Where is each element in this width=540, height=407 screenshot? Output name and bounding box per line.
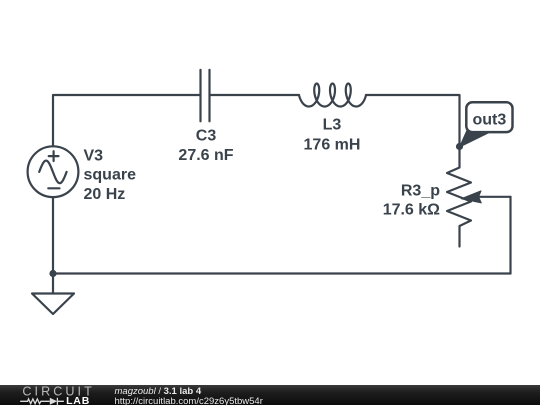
svg-text:square: square: [84, 167, 137, 184]
wire right vertical to wiper: [509, 197, 511, 274]
svg-text:17.6 kΩ: 17.6 kΩ: [383, 201, 440, 218]
svg-text:L3: L3: [323, 116, 342, 133]
wire C3 to L3: [210, 94, 300, 96]
voltage source V3: [28, 146, 79, 197]
footer bar: [0, 385, 540, 406]
out3 flag pointer: [460, 129, 488, 147]
wire V3 bottom to junction: [52, 197, 54, 273]
svg-text:176 mH: 176 mH: [304, 137, 361, 154]
svg-text:27.6 nF: 27.6 nF: [178, 147, 233, 164]
svg-text:R3_p: R3_p: [401, 183, 440, 200]
svg-text:20 Hz: 20 Hz: [84, 186, 126, 203]
out3 flag balloon: [466, 102, 512, 132]
wire L3 to top-right corner down to node: [366, 95, 460, 147]
footer text: [115, 387, 263, 407]
node out3 dot: [456, 143, 463, 150]
junction dot bottom-left: [49, 270, 56, 277]
svg-text:V3: V3: [84, 148, 104, 165]
capacitor C3: [201, 70, 210, 122]
svg-text:C3: C3: [196, 128, 217, 145]
wire top-left vertical+horizontal from V3 to C3: [53, 95, 201, 146]
wire bottom horizontal: [53, 272, 511, 274]
potentiometer R3_p: [447, 147, 481, 247]
inductor L3: [299, 84, 366, 107]
CircuitLab logo: [15, 385, 115, 406]
svg-text:out3: out3: [473, 111, 507, 128]
svg-text:LAB: LAB: [66, 395, 90, 406]
ground: [32, 274, 74, 315]
wire wiper horizontal: [480, 196, 511, 198]
